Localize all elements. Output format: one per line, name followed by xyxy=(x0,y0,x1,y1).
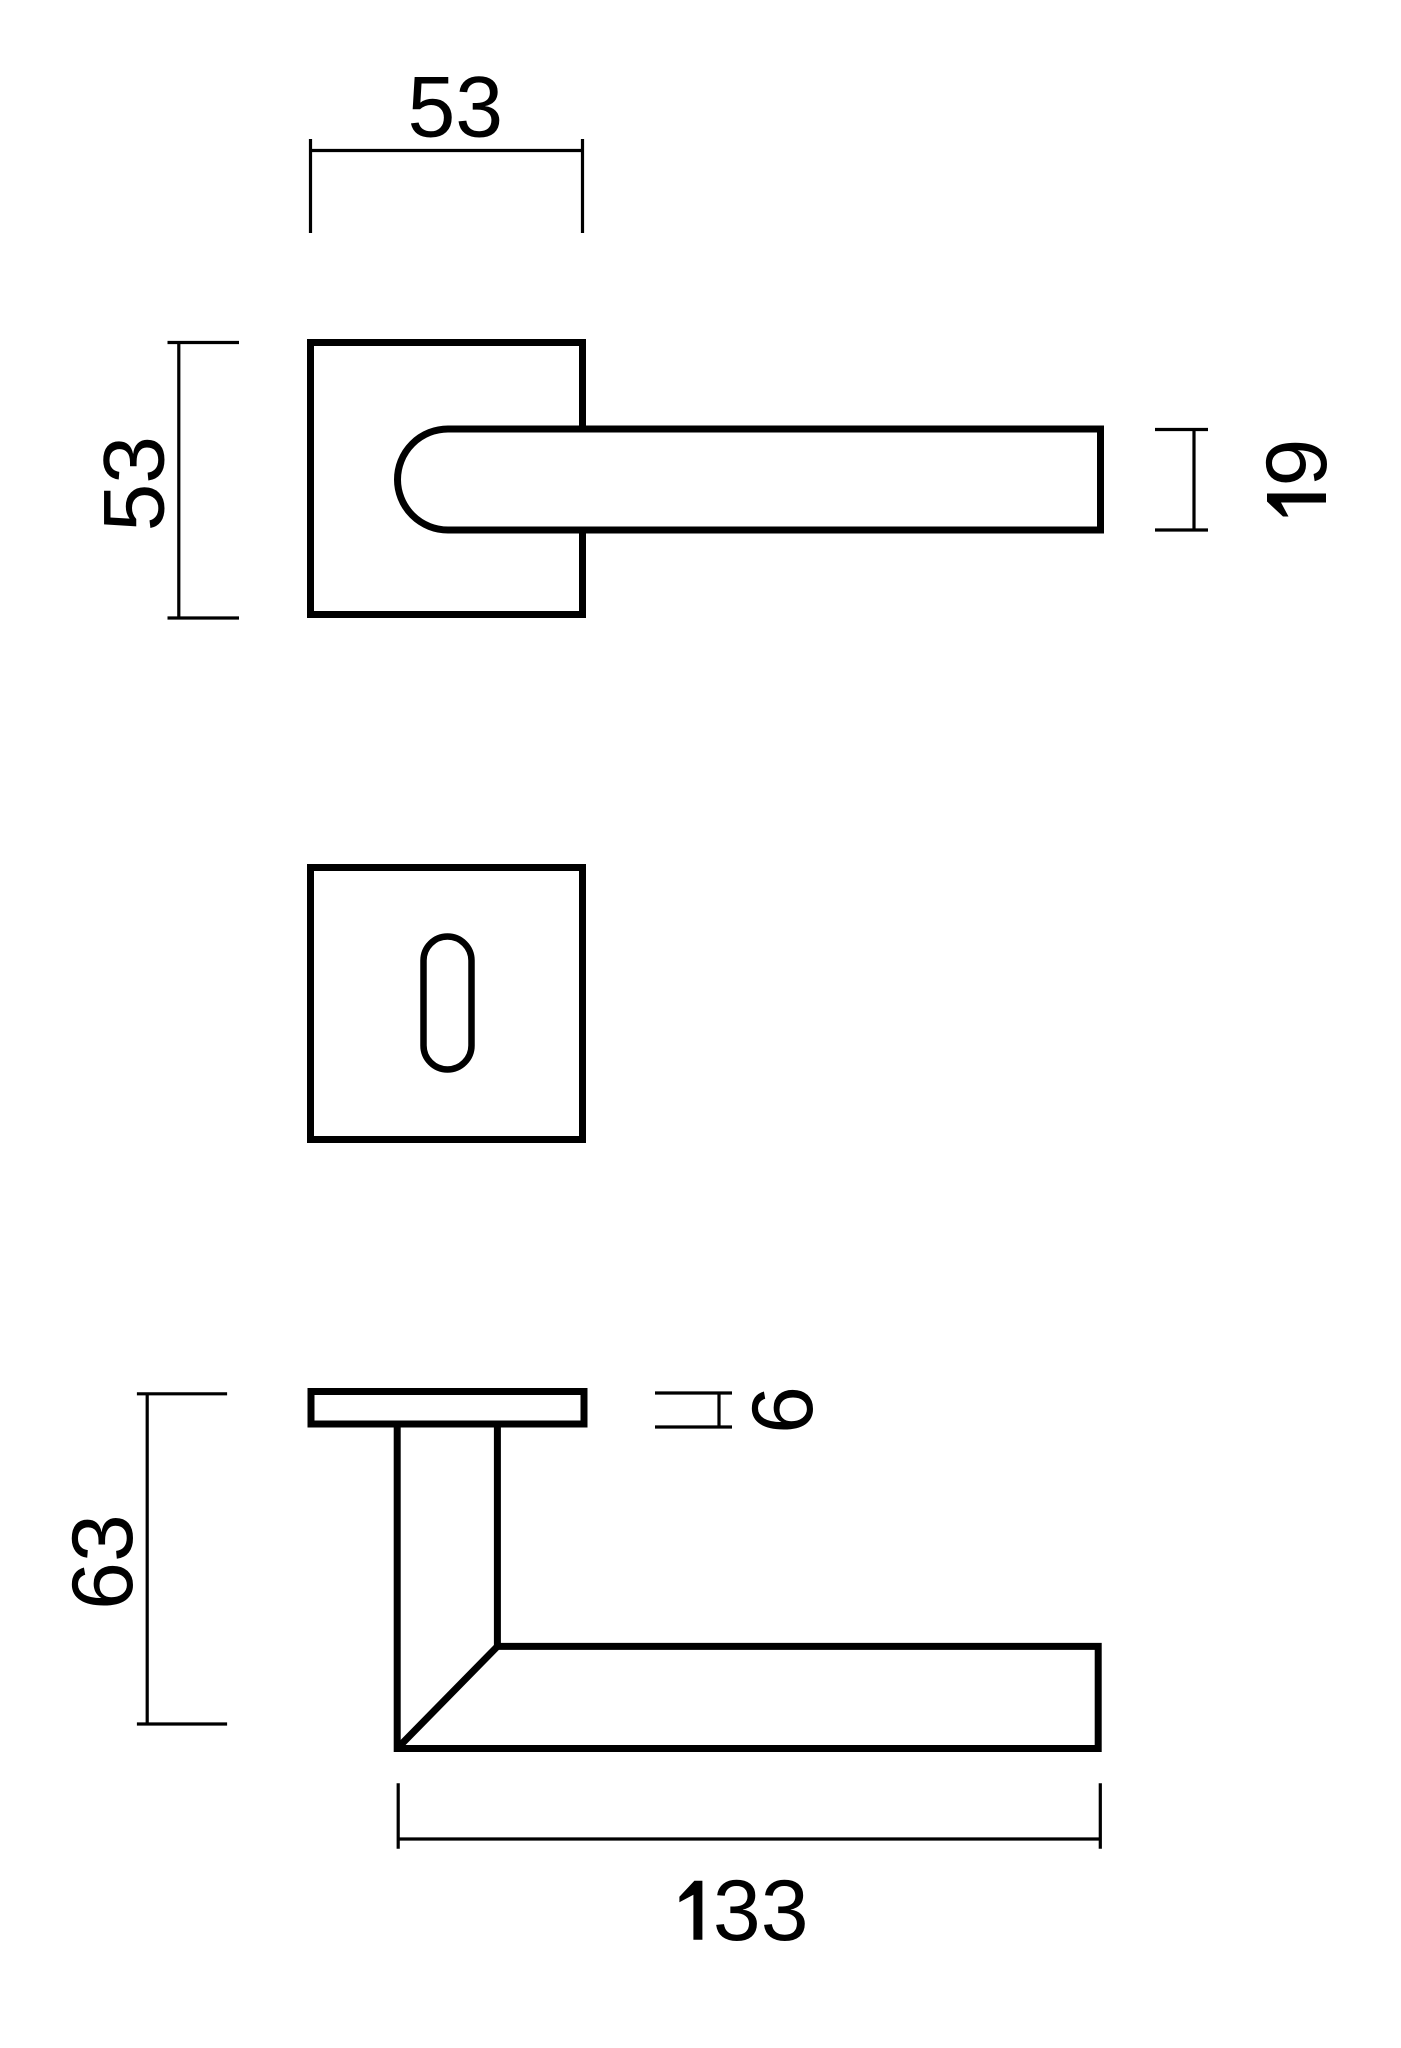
key rosette view: square escutcheon plate xyxy=(311,868,583,1140)
side view: handle bent bar silhouette xyxy=(397,1424,1098,1749)
dimension 53 horizontal: extension line right xyxy=(581,139,584,233)
dimension 63: dimension line xyxy=(146,1394,149,1724)
side view: rosette plate in profile xyxy=(311,1392,584,1425)
side view: miter bend line xyxy=(397,1646,497,1748)
svg-text:9: 9 xyxy=(1249,439,1345,487)
dimension 53 vertical: extension line bottom xyxy=(168,616,240,619)
dimension 53 vertical: dimension line xyxy=(177,343,180,619)
dimension 19: value label xyxy=(1249,439,1345,517)
svg-text:33: 33 xyxy=(713,1863,809,1959)
dimension 53 horizontal: extension line left xyxy=(309,139,312,233)
front view: lever handle bar xyxy=(398,429,1101,530)
dimension 63: extension line top xyxy=(137,1392,227,1395)
dimension 133: extension line left xyxy=(397,1783,400,1849)
dimension 19: dimension line xyxy=(1192,430,1195,531)
dimension 6: extension line top xyxy=(655,1391,732,1394)
dimension 19: extension line bottom xyxy=(1155,528,1208,531)
svg-text:53: 53 xyxy=(407,60,503,156)
dimension 53 horizontal: dimension line xyxy=(311,149,583,152)
dimension 6: dimension line xyxy=(717,1393,720,1427)
dimension 19: extension line top xyxy=(1155,428,1208,431)
dimension 133: value label xyxy=(679,1863,808,1959)
dimension 133: dimension line xyxy=(398,1837,1100,1840)
dimension 53 vertical: extension line top xyxy=(168,341,240,344)
dimension 6: extension line bottom xyxy=(655,1425,732,1428)
dimension 63: extension line bottom xyxy=(137,1722,227,1725)
key rosette view: keyhole slot xyxy=(424,937,472,1070)
svg-text:6: 6 xyxy=(735,1386,831,1434)
front view: square rosette plate xyxy=(311,343,583,615)
svg-text:53: 53 xyxy=(87,436,183,532)
svg-text:63: 63 xyxy=(55,1514,151,1610)
dimension 133: extension line right xyxy=(1099,1783,1102,1849)
